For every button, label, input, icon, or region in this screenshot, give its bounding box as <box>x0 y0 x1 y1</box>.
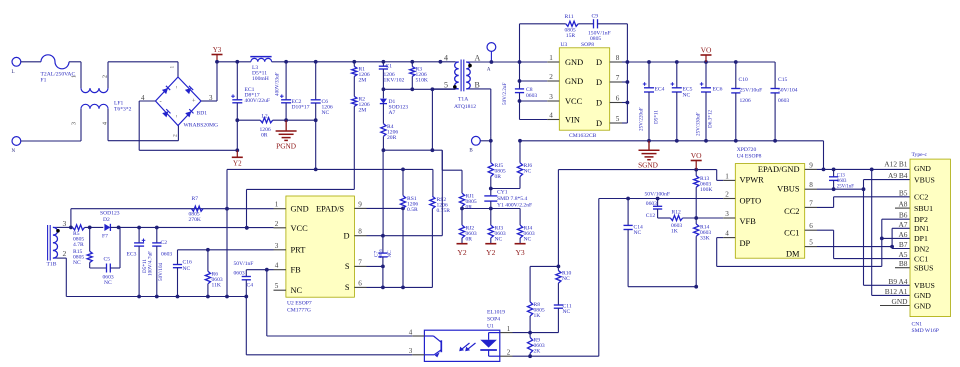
wire U3 pin3 <box>520 100 548 102</box>
svg-text:GND: GND <box>291 205 309 214</box>
svg-text:R12: R12 <box>672 210 682 216</box>
port B <box>469 136 480 153</box>
junction rail-C6 <box>314 168 318 172</box>
ground PGND <box>276 120 297 150</box>
net flag Y2 (bulk) <box>232 150 243 167</box>
svg-text:U4 ESOP8: U4 ESOP8 <box>737 153 762 159</box>
junction R3 bottom <box>410 87 414 91</box>
svg-text:5: 5 <box>809 239 813 247</box>
svg-text:D: D <box>596 98 602 107</box>
wire VO top rail <box>627 61 775 63</box>
wire FB to opto pin4 <box>267 270 413 336</box>
svg-text:VIN: VIN <box>565 115 580 124</box>
svg-text:400V/22uF: 400V/22uF <box>245 98 271 104</box>
svg-text:0805: 0805 <box>378 248 383 258</box>
junction GND drop <box>822 168 826 172</box>
junction U3 pin2 <box>518 79 522 83</box>
junction C4 bottom <box>244 295 248 299</box>
inductor L3 <box>250 57 271 82</box>
resistor R7 <box>189 196 204 223</box>
svg-text:GND: GND <box>914 301 931 310</box>
resistor R13 <box>694 170 713 218</box>
wire secondary ground rail <box>520 140 824 142</box>
svg-text:0R: 0R <box>466 237 473 243</box>
wire T1A A to U3 <box>469 61 519 63</box>
svg-text:15R: 15R <box>566 33 576 39</box>
svg-text:VCC: VCC <box>565 97 583 106</box>
svg-text:L: L <box>12 70 15 75</box>
wire R5 to D2 <box>85 226 104 228</box>
svg-text:510K: 510K <box>416 78 428 84</box>
junction R14 bottom <box>694 285 698 289</box>
svg-text:GND: GND <box>914 291 931 300</box>
svg-text:Y3: Y3 <box>213 46 222 54</box>
svg-text:4: 4 <box>409 329 413 337</box>
svg-text:50V/104: 50V/104 <box>778 88 798 94</box>
svg-text:CC1: CC1 <box>914 254 928 263</box>
svg-text:6: 6 <box>616 95 620 103</box>
junction VCC feed <box>245 226 249 230</box>
wire Y-cap rail <box>462 209 520 226</box>
svg-text:2: 2 <box>549 73 553 81</box>
svg-text:0.75R: 0.75R <box>437 208 451 214</box>
svg-text:BD1: BD1 <box>197 111 208 117</box>
capacitor C13 <box>829 169 854 189</box>
junction R13 top <box>694 168 698 172</box>
wire HV rail right <box>272 61 456 63</box>
net flag Y3 (RJ4) <box>515 244 526 257</box>
svg-text:A7: A7 <box>898 220 907 229</box>
wire C4 to opto pin3 <box>246 297 412 355</box>
svg-text:CC2: CC2 <box>914 193 928 202</box>
junction C12 top <box>656 197 660 201</box>
junction U3 pin1 <box>518 60 522 64</box>
svg-text:4: 4 <box>725 230 729 238</box>
resistor R1 <box>352 62 370 84</box>
svg-text:9: 9 <box>809 161 813 169</box>
svg-text:A12 B1: A12 B1 <box>884 160 908 169</box>
wire VFB line <box>683 217 724 219</box>
svg-text:C12: C12 <box>646 213 656 219</box>
wire U4 pin6 CC1 <box>817 230 910 258</box>
svg-text:DP2: DP2 <box>914 215 928 224</box>
wire fuse to LF1 pin1 <box>69 62 81 88</box>
svg-text:SOP4: SOP4 <box>487 317 500 323</box>
wire DM to DN1 DN2 <box>892 228 910 248</box>
wire to RJ1 <box>442 150 462 193</box>
capacitor C14 <box>624 199 644 287</box>
svg-text:0603: 0603 <box>526 93 537 99</box>
junction rail-RS1 <box>401 168 405 172</box>
resistor R3 <box>410 62 428 90</box>
svg-text:D2: D2 <box>103 217 110 223</box>
junction C2 bottom <box>155 295 159 299</box>
junction GND-rail drop <box>225 207 229 211</box>
capacitor EC1 <box>231 62 270 151</box>
svg-text:B7: B7 <box>899 240 908 249</box>
wire mid rail left <box>237 119 260 121</box>
junction EC6 top <box>704 60 708 64</box>
wire PRT line <box>178 249 274 251</box>
svg-text:25V/10uF: 25V/10uF <box>740 88 763 94</box>
wire switch-node bottom <box>383 89 442 150</box>
svg-text:2: 2 <box>725 191 729 199</box>
resistor RS1 <box>400 169 418 213</box>
junction D rail <box>626 60 630 64</box>
junction RS1 bottom <box>401 207 405 211</box>
svg-text:270K: 270K <box>189 217 201 223</box>
svg-text:50V/2.2uF: 50V/2.2uF <box>502 83 508 105</box>
svg-text:VO: VO <box>701 46 712 55</box>
svg-text:NC: NC <box>524 169 532 175</box>
svg-text:Y2: Y2 <box>486 248 495 257</box>
svg-text:NC: NC <box>563 309 571 315</box>
svg-text:C13: C13 <box>837 173 846 178</box>
junction SW drop <box>431 87 435 91</box>
capacitor CY1 <box>484 189 532 209</box>
wire U3 pin1 <box>520 61 548 63</box>
svg-text:1K: 1K <box>534 313 541 319</box>
transformer T1A <box>444 54 481 111</box>
svg-text:NC: NC <box>524 237 532 243</box>
wire opto pin1 <box>513 332 559 334</box>
resistor R10 <box>556 271 572 284</box>
svg-text:EL1019: EL1019 <box>487 310 505 316</box>
wire C9 to D rail <box>598 24 628 62</box>
junction pin6-RS1 <box>401 286 405 290</box>
wire R11 branch <box>520 23 566 25</box>
svg-text:CC1: CC1 <box>784 228 799 237</box>
svg-text:8: 8 <box>358 228 362 236</box>
capacitor C2 <box>152 228 172 297</box>
junction Y2 bulk return <box>235 148 239 152</box>
svg-text:U3: U3 <box>561 42 568 48</box>
svg-text:2M: 2M <box>359 78 367 84</box>
svg-text:U2 ESOP7: U2 ESOP7 <box>287 301 312 307</box>
svg-text:0603: 0603 <box>234 271 245 277</box>
svg-text:11K: 11K <box>212 283 221 289</box>
capacitor EC6 <box>696 62 723 141</box>
wire RS1 down <box>402 208 404 287</box>
svg-text:Y1 400V/2.2nF: Y1 400V/2.2nF <box>497 203 532 209</box>
wire switch-node top <box>383 88 455 90</box>
capacitor C5 <box>90 227 120 286</box>
svg-text:N: N <box>12 149 16 154</box>
junction T1A pin4 <box>439 60 443 64</box>
svg-text:6: 6 <box>809 222 813 230</box>
junction SGND <box>647 139 651 143</box>
svg-text:CM1777G: CM1777G <box>287 308 311 314</box>
svg-text:GND: GND <box>914 164 931 173</box>
diode D2 <box>100 211 120 240</box>
svg-text:EPAD/GND: EPAD/GND <box>758 165 800 174</box>
wire U3 pin2 <box>520 80 548 82</box>
junction RJ1 bottom <box>460 207 464 211</box>
svg-text:D6.3*12: D6.3*12 <box>708 110 714 128</box>
svg-text:T6*3*2: T6*3*2 <box>114 107 132 113</box>
wire B port to ground rail <box>480 137 491 141</box>
svg-text:C2: C2 <box>161 240 168 246</box>
svg-text:DM: DM <box>786 250 800 259</box>
svg-text:4: 4 <box>444 54 448 63</box>
svg-text:B6: B6 <box>899 211 908 220</box>
svg-text:DP: DP <box>740 239 751 248</box>
svg-text:DN1: DN1 <box>914 224 929 233</box>
wire U2 pin9 S <box>367 207 404 209</box>
optocoupler U1 EL1019 <box>409 310 513 362</box>
svg-text:4: 4 <box>275 262 279 270</box>
junction rail-drop bottom <box>225 295 229 299</box>
junction EC5 bottom <box>675 139 679 143</box>
svg-text:B12 A1: B12 A1 <box>885 287 908 296</box>
svg-text:A5: A5 <box>898 250 907 259</box>
junction VCC aux <box>245 226 249 230</box>
svg-text:R7: R7 <box>192 196 199 202</box>
svg-text:D: D <box>596 58 602 67</box>
diode D1 <box>380 89 408 116</box>
svg-text:0R: 0R <box>466 205 473 211</box>
junction FB-opto <box>265 268 269 272</box>
svg-text:0603: 0603 <box>646 201 657 207</box>
junction C6 mid <box>314 118 318 122</box>
svg-text:C4: C4 <box>247 283 254 289</box>
svg-text:WRABS20MG: WRABS20MG <box>184 123 219 129</box>
wire opto feedback <box>599 199 723 357</box>
wire fb bottom <box>628 286 696 288</box>
svg-text:VPWR: VPWR <box>740 175 765 184</box>
resistor R11 <box>565 14 579 39</box>
capacitor C8 <box>502 83 537 105</box>
svg-text:GND: GND <box>891 297 908 306</box>
junction R1 top <box>352 60 356 64</box>
wire U2 pin7 S <box>367 265 383 267</box>
junction R9 bottom <box>528 354 532 358</box>
svg-text:25V/220uF: 25V/220uF <box>639 107 645 131</box>
wire LF1 pin4 to bridge pin2 <box>108 109 178 141</box>
junction C16 bottom <box>176 295 180 299</box>
svg-text:3: 3 <box>725 210 729 218</box>
svg-text:2K: 2K <box>534 349 541 355</box>
svg-text:1: 1 <box>725 172 729 180</box>
svg-text:+: + <box>192 98 196 105</box>
svg-text:C15: C15 <box>778 77 788 83</box>
svg-text:0R: 0R <box>495 174 502 180</box>
op-amp U3 CM1632CB <box>547 42 622 139</box>
resistor RS2 <box>430 196 450 287</box>
junction C1 top <box>382 60 386 64</box>
svg-text:6: 6 <box>358 279 362 287</box>
wire U4 pin5 DM <box>817 246 892 248</box>
svg-text:50V/104: 50V/104 <box>158 262 164 281</box>
ground SGND <box>638 141 659 170</box>
svg-text:3: 3 <box>549 93 553 101</box>
svg-text:VFB: VFB <box>740 217 757 226</box>
svg-text:C9: C9 <box>592 14 599 20</box>
svg-text:F1: F1 <box>41 78 47 84</box>
wire D2 to VCC line <box>110 226 273 228</box>
junction CY1 top <box>489 187 493 191</box>
svg-text:SBUS: SBUS <box>914 264 934 273</box>
junction EC3 top <box>137 226 141 230</box>
svg-text:NC: NC <box>291 286 303 295</box>
svg-text:L2: L2 <box>262 114 268 120</box>
svg-text:EPAD/S: EPAD/S <box>316 205 344 214</box>
junction A port <box>490 60 494 64</box>
capacitor C12 <box>645 191 671 219</box>
wire U4 pin9 GND <box>817 168 910 170</box>
svg-text:4.7R: 4.7R <box>73 242 84 248</box>
svg-text:SOD123: SOD123 <box>100 211 120 217</box>
junction C15 bottom <box>773 139 777 143</box>
svg-text:D10*17: D10*17 <box>292 105 310 111</box>
svg-text:NC: NC <box>73 260 81 266</box>
junction C2 top <box>155 226 159 230</box>
wire GND to lower pins <box>872 169 910 295</box>
svg-text:D5*11: D5*11 <box>654 110 660 124</box>
junction EC3 bottom <box>137 295 141 299</box>
wire CN1 GND stub <box>880 305 910 307</box>
junction R8 bottom <box>528 331 532 335</box>
svg-text:VBUS: VBUS <box>914 281 935 290</box>
bridge rectifier BD1 <box>141 66 218 138</box>
wire U4 pin7 CC2 <box>817 197 910 208</box>
capacitor C9 <box>588 14 611 43</box>
junction C13 bottom <box>832 187 836 191</box>
junction R6 bottom <box>206 295 210 299</box>
junction C10 bottom <box>734 139 738 143</box>
svg-text:Y3: Y3 <box>515 248 524 257</box>
junction B <box>489 139 493 143</box>
wire L to fuse <box>21 61 41 63</box>
svg-text:D: D <box>343 232 349 241</box>
svg-text:1: 1 <box>72 75 78 78</box>
svg-text:Type-c: Type-c <box>912 152 928 158</box>
resistor RJ5 <box>488 141 506 189</box>
junction EC2 top <box>284 60 288 64</box>
svg-text:T1A: T1A <box>458 97 468 103</box>
svg-text:CC2: CC2 <box>784 207 799 216</box>
svg-text:OPTO: OPTO <box>740 197 762 206</box>
capacitor C7 <box>374 236 394 267</box>
svg-text:SMD W16P: SMD W16P <box>912 328 939 334</box>
svg-text:ATQ1812: ATQ1812 <box>454 104 476 110</box>
svg-text:1KV/102: 1KV/102 <box>384 78 405 84</box>
svg-text:CM1632CB: CM1632CB <box>569 133 597 139</box>
svg-text:1K: 1K <box>671 229 678 235</box>
capacitor EC4 <box>639 62 665 141</box>
svg-text:33K: 33K <box>700 236 710 242</box>
svg-text:DN2: DN2 <box>914 244 929 253</box>
port N (neutral input) <box>12 137 21 154</box>
wire GND drop from SGND rail <box>823 141 825 170</box>
junction DM vert <box>890 245 894 249</box>
junction C13 top <box>832 168 836 172</box>
wire U3 input bus <box>520 24 548 120</box>
svg-text:PGND: PGND <box>276 142 296 151</box>
svg-text:25V/1nF: 25V/1nF <box>837 184 854 189</box>
op-amp U4 XPD720 <box>723 147 817 259</box>
svg-text:A8: A8 <box>898 200 907 209</box>
svg-text:0603: 0603 <box>837 179 847 184</box>
wire mid rail right <box>273 119 316 121</box>
wire VO drop <box>557 170 559 271</box>
svg-text:GND: GND <box>565 77 583 86</box>
junction pin6-C7 <box>381 286 385 290</box>
wire N to LF1 pin3 <box>21 109 81 141</box>
resistor R14 <box>694 218 712 287</box>
junction D rail pin6 <box>626 101 630 105</box>
svg-text:D: D <box>596 78 602 87</box>
svg-text:NC: NC <box>183 266 191 272</box>
svg-text:C10: C10 <box>739 77 749 83</box>
svg-text:NC: NC <box>322 110 330 116</box>
svg-text:EC4: EC4 <box>655 87 665 93</box>
junction C14 top <box>626 197 630 201</box>
svg-text:NC: NC <box>495 237 503 243</box>
svg-text:Y2: Y2 <box>233 160 242 168</box>
svg-text:S: S <box>345 262 350 271</box>
svg-text:7: 7 <box>809 199 813 207</box>
junction R15 top <box>88 226 92 230</box>
junction D2 cathode <box>117 226 121 230</box>
junction T1B pin3 <box>69 226 73 230</box>
wire bridge pin4 to return rail <box>139 101 155 150</box>
inductor L2 (0R) <box>260 114 273 139</box>
resistor R2 <box>352 96 370 189</box>
wire aux bottom rail <box>57 258 247 296</box>
wire D net vertical <box>382 150 384 236</box>
svg-text:-: - <box>160 98 162 105</box>
junction D rail pin7 <box>626 80 630 84</box>
svg-text:3: 3 <box>63 219 67 228</box>
svg-text:1: 1 <box>170 66 176 69</box>
wire HV rail left <box>217 61 251 63</box>
svg-text:50V/100nF: 50V/100nF <box>645 191 671 197</box>
svg-text:PRT: PRT <box>291 246 306 255</box>
resistor RJ1 <box>459 193 476 210</box>
svg-text:3: 3 <box>275 242 279 250</box>
junction R3 top <box>410 60 414 64</box>
junction C7 bottom <box>381 265 385 269</box>
svg-text:100mH: 100mH <box>252 76 269 82</box>
junction EC2 mid <box>284 118 288 122</box>
svg-text:A: A <box>475 54 481 63</box>
wire VBUS to CN1 <box>864 180 911 286</box>
junction R6 top <box>206 248 210 252</box>
wire CN1 SBUS stub <box>895 267 910 269</box>
wire U3 D pins <box>622 62 627 123</box>
fuse F1 <box>41 55 76 84</box>
svg-text:VO: VO <box>691 151 702 160</box>
wire R2 to VCC feed <box>247 189 355 227</box>
resistor RJ2 <box>459 209 476 244</box>
wire bridge pin3 to Y3 node <box>201 62 217 101</box>
common-mode choke LF1 <box>72 75 132 125</box>
junction C6 top <box>314 60 318 64</box>
junction SW bottom <box>431 148 435 152</box>
wire U2 GND line <box>71 208 274 210</box>
wire DP route <box>717 219 882 266</box>
wire U2 pin8 D <box>367 150 443 236</box>
svg-text:VCC: VCC <box>291 224 309 233</box>
svg-text:2: 2 <box>275 220 279 228</box>
svg-text:GND: GND <box>565 58 583 67</box>
capacitor EC3 <box>127 228 154 297</box>
junction VBUS vert <box>862 187 866 191</box>
svg-text:C1: C1 <box>386 64 393 70</box>
svg-text:2: 2 <box>63 249 67 258</box>
resistor R15 <box>73 227 92 268</box>
